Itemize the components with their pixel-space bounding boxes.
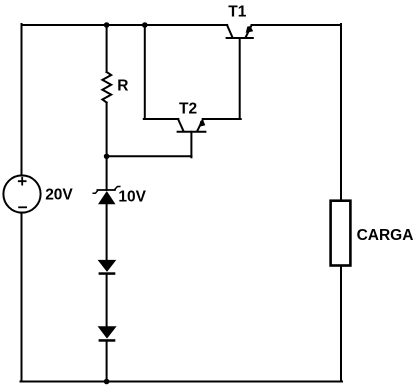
svg-text:T2: T2 xyxy=(179,100,197,117)
svg-text:10V: 10V xyxy=(118,189,146,206)
svg-text:T1: T1 xyxy=(228,4,246,21)
svg-text:CARGA: CARGA xyxy=(357,227,414,244)
svg-text:R: R xyxy=(117,77,128,94)
svg-text:20V: 20V xyxy=(45,186,73,203)
